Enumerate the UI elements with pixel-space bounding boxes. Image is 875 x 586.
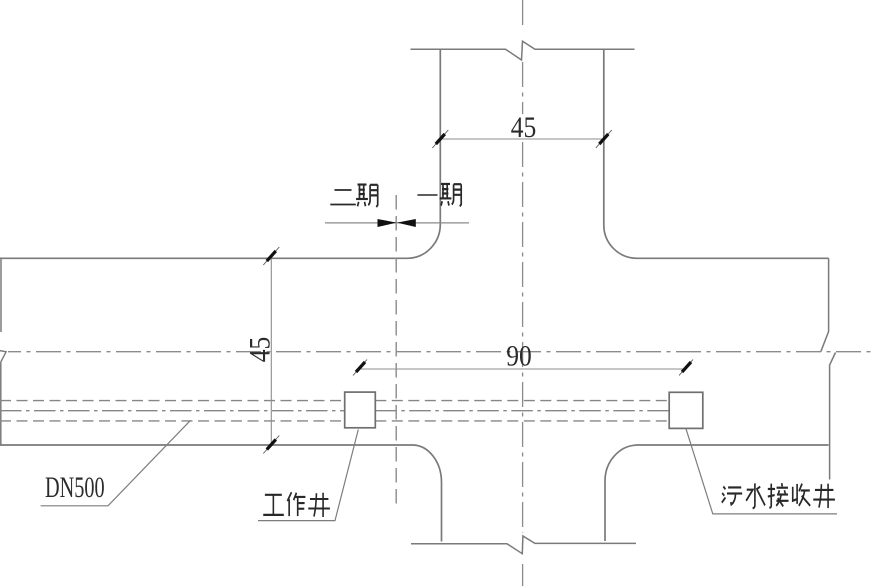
road: top edge left segment bbox=[0, 257, 407, 259]
leader DN500: underline and arrow line bbox=[41, 421, 191, 506]
dimension 45 (left): bottom tick bbox=[263, 436, 279, 454]
label 二期 (phase 2): glyph 二 bbox=[330, 190, 356, 204]
svg-text:45: 45 bbox=[244, 337, 277, 362]
leader receiving shaft bbox=[686, 429, 837, 514]
phase boundary dashed line bbox=[395, 195, 397, 504]
road: top break line with jog bbox=[411, 41, 635, 60]
dimension 45 (top): left tick bbox=[432, 130, 448, 148]
label 污水接收井: glyph 井 bbox=[813, 484, 835, 508]
centerline: horizontal road axis (dash-dot) bbox=[8, 351, 875, 353]
road: bottom edge right segment + fillet + lower-right vertical edge bbox=[605, 445, 829, 541]
label 工作井: glyph 井 bbox=[308, 493, 330, 517]
sewage receiving shaft square bbox=[669, 392, 703, 428]
svg-text:45: 45 bbox=[511, 111, 536, 144]
pipe DN500: lower edge (dashed) bbox=[0, 420, 669, 422]
svg-text:DN500: DN500 bbox=[45, 470, 105, 504]
road: upper-right vertical edge + fillet bbox=[604, 49, 637, 258]
dimension 45 (left): top tick bbox=[263, 247, 279, 265]
label 工作井: glyph 作 bbox=[287, 492, 305, 516]
label 污水接收井: glyph 收 bbox=[793, 484, 810, 506]
road: left break line with jog bbox=[0, 258, 2, 332]
leader working shaft bbox=[258, 430, 358, 521]
label 污水接收井: glyph 水 bbox=[746, 483, 765, 508]
pipe DN500: upper edge (dashed) bbox=[0, 400, 669, 402]
dimension 90: dimension line bbox=[360, 368, 686, 370]
road: bottom edge left segment + fillet + lower-left vertical edge bbox=[0, 445, 442, 542]
dimension 45 (top): right tick bbox=[596, 130, 612, 148]
phase marker line bbox=[325, 222, 469, 224]
phase marker arrow left bbox=[378, 219, 397, 227]
pipe DN500: centerline (dash-dot) bbox=[0, 410, 669, 412]
label 工作井: glyph 工 bbox=[263, 495, 284, 515]
label 一期: glyph 期 bbox=[440, 183, 462, 206]
road: right break line with jog bbox=[821, 258, 829, 351]
phase marker arrow right bbox=[397, 219, 416, 227]
dimension 45 (top): dimension line bbox=[440, 138, 604, 140]
working shaft square bbox=[345, 392, 376, 428]
dimension 90: right tick bbox=[679, 360, 693, 376]
road: top edge right segment bbox=[637, 257, 829, 259]
label 污水接收井: glyph 接 bbox=[768, 483, 789, 507]
label 一期 (phase 1): glyph 一 bbox=[417, 194, 437, 196]
svg-text:90: 90 bbox=[506, 339, 531, 372]
label 二期: glyph 期 bbox=[356, 184, 378, 207]
dimension 45 (top): text bbox=[508, 114, 539, 137]
road: bottom break line with jog bbox=[411, 536, 636, 554]
dimension 45 (left vertical): dimension line bbox=[270, 256, 272, 445]
road: upper-left vertical edge + fillet bbox=[407, 49, 440, 258]
label 污水接收井: glyph 污 bbox=[722, 486, 742, 504]
dimension 90: left tick bbox=[353, 360, 367, 376]
centerline: vertical road axis (dash-dot) bbox=[522, 0, 524, 29]
